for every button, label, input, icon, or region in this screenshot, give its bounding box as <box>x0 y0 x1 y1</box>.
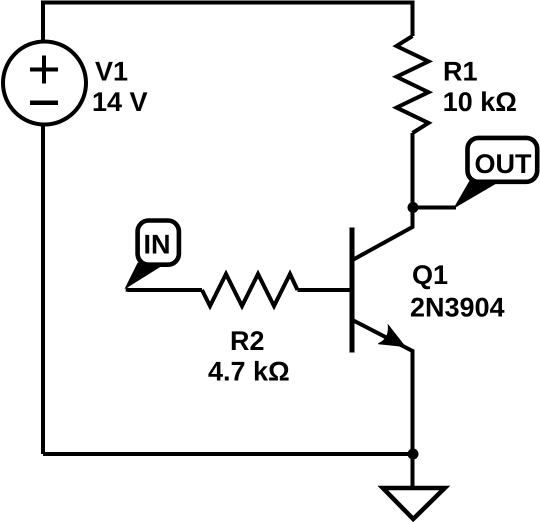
IN label text <box>145 235 168 254</box>
transistor Q1 emitter arrowhead <box>378 325 405 346</box>
resistor R2 zigzag <box>202 274 298 306</box>
label R1 <box>445 62 477 81</box>
wire ground lead <box>411 454 415 488</box>
node emitter/ground junction dot <box>408 449 419 460</box>
label R2 <box>232 331 264 350</box>
OUT label tail <box>455 180 499 208</box>
OUT label box <box>468 138 538 182</box>
wire left rail: V1 bottom to bottom rail <box>41 125 45 455</box>
label V1 <box>95 62 127 81</box>
resistor R1 zigzag <box>397 36 429 133</box>
label 10 kOhm <box>444 91 515 111</box>
label 2N3904 <box>411 298 505 317</box>
transistor Q1 base bar <box>350 228 355 353</box>
node OUT junction dot <box>408 202 419 213</box>
wire OUT node stub to OUT label tail <box>413 206 456 210</box>
ground symbol <box>383 488 445 519</box>
voltage source V1 circle <box>3 42 86 125</box>
wire R1 bottom to OUT node <box>411 133 415 208</box>
wire base: IN tail tip to transistor base <box>126 288 202 293</box>
OUT label text <box>476 154 532 173</box>
V1 minus sign <box>30 100 58 105</box>
IN label tail <box>126 263 160 288</box>
wire top rail: V1 top to R1 top <box>43 3 413 42</box>
IN label box <box>138 221 179 265</box>
label 14 V <box>94 92 148 111</box>
wire bottom rail <box>43 452 413 456</box>
V1 plus sign <box>30 56 58 84</box>
transistor Q1 collector lead <box>353 208 413 261</box>
label 4.7 kOhm <box>208 361 288 381</box>
transistor Q1 emitter lead <box>353 320 413 454</box>
label Q1 <box>413 265 447 289</box>
wire R2 right to transistor base bar <box>298 288 353 292</box>
